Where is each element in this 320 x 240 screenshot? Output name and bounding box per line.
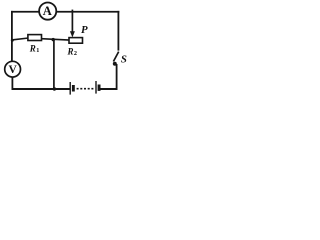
battery cell 2 long plate <box>95 81 97 94</box>
wire vertical to battery <box>53 40 55 89</box>
svg-text:S: S <box>121 54 127 66</box>
resistor R1 <box>28 35 42 41</box>
svg-text:1: 1 <box>36 47 39 54</box>
junction left <box>11 39 14 42</box>
wire bottom right <box>101 88 118 90</box>
wire right vertical lower <box>116 64 118 90</box>
wire bottom left <box>12 88 70 90</box>
switch S blade <box>113 52 118 62</box>
svg-text:V: V <box>9 64 18 76</box>
junction bottom <box>53 87 56 90</box>
battery cell 2 short plate <box>98 85 101 91</box>
wire left vertical lower <box>11 77 13 90</box>
battery cell 1 long plate <box>69 82 71 95</box>
voltmeter V <box>11 41 13 61</box>
wire top-left segment <box>11 11 40 13</box>
battery dashed middle <box>77 88 95 90</box>
switch S terminal dot <box>113 62 117 66</box>
svg-text:2: 2 <box>74 50 77 57</box>
wire top-right segment <box>56 11 119 13</box>
svg-text:R: R <box>67 46 74 56</box>
wire middle left (to R1) <box>12 38 29 40</box>
svg-text:P: P <box>81 24 88 36</box>
wire slider drop <box>71 10 73 32</box>
resistor R2 <box>69 38 83 44</box>
wire right vertical upper <box>117 11 119 51</box>
junction middle <box>52 38 55 41</box>
battery cell 1 short plate <box>72 85 75 92</box>
wire left vertical upper <box>11 11 13 41</box>
slider arrow of P <box>70 31 75 37</box>
svg-text:R: R <box>29 44 36 54</box>
wire middle right (R1 to R2) <box>41 39 69 40</box>
svg-text:A: A <box>43 4 52 18</box>
ammeter A <box>39 3 56 20</box>
